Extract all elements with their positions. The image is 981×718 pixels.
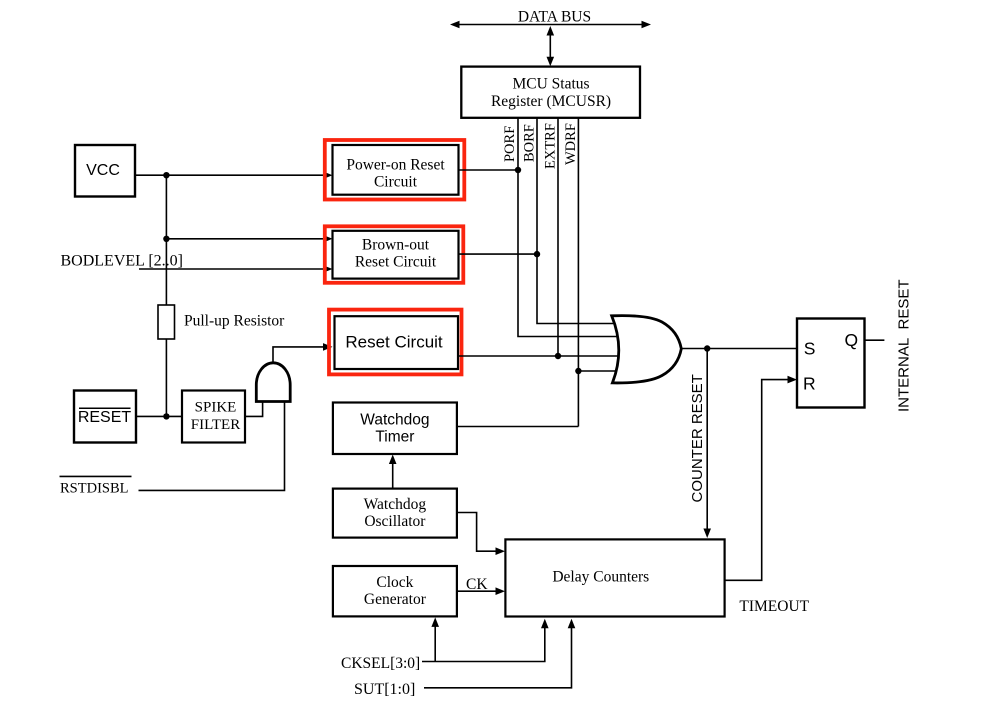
- wire BORF net: MCUSR down, right into OR gate: [537, 118, 616, 324]
- wire VCC rail down to pull-up resistor: [165, 175, 167, 305]
- wire pull-up resistor to reset line: [165, 339, 167, 416]
- svg-text:Pull-up Resistor: Pull-up Resistor: [184, 313, 285, 330]
- wire SUT to delay counters: [424, 619, 575, 688]
- svg-text:Timer: Timer: [375, 429, 414, 446]
- svg-text:INTERNAL RESET: INTERNAL RESET: [896, 279, 913, 412]
- wire CKSEL to clock generator and delay counters: [422, 617, 549, 661]
- svg-text:EXTRF: EXTRF: [543, 123, 559, 169]
- svg-text:RESET: RESET: [78, 409, 132, 426]
- wire watchdog oscillator to watchdog timer: [389, 455, 397, 489]
- latch U10 SR latch: [797, 319, 865, 408]
- wire BODLEVEL to brown-out reset circuit: [139, 265, 333, 273]
- node junction BORF / brown-out: [534, 251, 540, 257]
- svg-text:TIMEOUT: TIMEOUT: [739, 598, 809, 615]
- svg-text:SUT[1:0]: SUT[1:0]: [354, 681, 415, 698]
- svg-text:Clock: Clock: [376, 574, 413, 591]
- svg-text:CKSEL[3:0]: CKSEL[3:0]: [341, 655, 420, 672]
- block U4 Brown-out Reset Circuit (red highlight): [325, 226, 464, 282]
- svg-text:Power-on Reset: Power-on Reset: [346, 157, 445, 174]
- wire OR output to latch S input: [681, 348, 797, 350]
- wire watchdog oscillator output to delay counters: [457, 513, 505, 556]
- wire VCC branch to brown-out reset circuit: [166, 235, 332, 243]
- wire brown-out output to BORF net: [459, 253, 538, 255]
- node junction counter reset branch: [704, 345, 710, 351]
- wire spike filter to gate G1: [245, 402, 263, 416]
- node junction VCC branch: [163, 172, 169, 178]
- svg-text:SPIKE: SPIKE: [195, 400, 237, 416]
- filter U2 SPIKE FILTER box: [182, 391, 245, 443]
- node junction EXTRF / reset circuit: [555, 353, 561, 359]
- port RESET box: [74, 391, 136, 443]
- svg-text:Watchdog: Watchdog: [360, 412, 429, 429]
- svg-text:Circuit: Circuit: [374, 174, 418, 191]
- svg-text:Oscillator: Oscillator: [364, 513, 426, 530]
- node RSTDISBL label: [60, 476, 132, 496]
- supply VCC box: [75, 145, 135, 197]
- svg-text:Reset Circuit: Reset Circuit: [355, 254, 437, 271]
- wire TIMEOUT from delay counters to latch R input: [725, 376, 797, 581]
- wire RSTDISBL to gate G1: [139, 402, 285, 491]
- wire watchdog timer output to WDRF net: [457, 426, 579, 428]
- block U8 Clock Generator: [333, 566, 457, 616]
- svg-text:PORF: PORF: [502, 126, 518, 162]
- svg-text:R: R: [803, 373, 816, 393]
- svg-text:Generator: Generator: [364, 591, 427, 608]
- wire WDRF net: MCUSR down to watchdog-timer output row: [577, 118, 579, 427]
- svg-text:RSTDISBL: RSTDISBL: [60, 481, 129, 497]
- svg-text:VCC: VCC: [86, 162, 120, 179]
- wire EXTRF net: MCUSR down to reset-circuit output row: [557, 118, 559, 356]
- gate G1 (reset disable gate): [256, 363, 290, 402]
- block U3 Power-on Reset Circuit (red highlight): [325, 140, 465, 200]
- register U1 MCU Status Register (MCUSR): [461, 67, 640, 118]
- node junction WDRF / OR input: [575, 368, 581, 374]
- wire MCUSR to data bus (vertical double arrow): [547, 26, 555, 66]
- svg-text:Register (MCUSR): Register (MCUSR): [491, 93, 611, 110]
- block U5 Reset Circuit (red highlight): [329, 310, 462, 375]
- wire RESET to spike filter: [136, 415, 182, 417]
- wire Q output (internal reset): [865, 339, 885, 341]
- svg-text:Brown-out: Brown-out: [362, 237, 430, 254]
- svg-text:Watchdog: Watchdog: [364, 496, 427, 513]
- svg-text:COUNTER RESET: COUNTER RESET: [689, 374, 706, 502]
- wire VCC to power-on reset circuit: [135, 171, 333, 179]
- node junction PORF / power-on: [515, 167, 521, 173]
- svg-text:BODLEVEL [2..0]: BODLEVEL [2..0]: [61, 252, 184, 269]
- gate G2 OR (reset sources): [612, 316, 682, 383]
- wire power-on output to PORF net: [459, 169, 519, 171]
- svg-text:Q: Q: [845, 330, 859, 350]
- svg-text:FILTER: FILTER: [191, 417, 240, 433]
- svg-text:WDRF: WDRF: [563, 123, 579, 165]
- block U6 Watchdog Timer: [333, 403, 457, 455]
- wire CK clock generator to delay counters: [457, 587, 505, 595]
- data bus arrow: [450, 21, 651, 29]
- svg-text:BORF: BORF: [521, 124, 537, 162]
- wire WDRF to OR gate input: [578, 370, 618, 372]
- resistor R1 pull-up: [158, 305, 175, 339]
- svg-text:MCU Status: MCU Status: [512, 75, 589, 92]
- wire gate G1 output to reset circuit: [273, 343, 333, 362]
- svg-text:DATA BUS: DATA BUS: [518, 8, 591, 25]
- counter U9 Delay Counters: [505, 539, 724, 616]
- node junction brown-out branch: [163, 236, 169, 242]
- wire reset circuit output to EXTRF net and OR gate: [458, 355, 620, 357]
- block U7 Watchdog Oscillator: [333, 489, 457, 538]
- svg-text:S: S: [804, 339, 816, 359]
- wire COUNTER RESET down to delay counters: [703, 349, 711, 539]
- node junction pull-up / reset wire: [163, 413, 169, 419]
- svg-text:Delay Counters: Delay Counters: [552, 569, 649, 586]
- wire PORF net: MCUSR down, right into OR gate: [518, 118, 619, 337]
- svg-text:Reset Circuit: Reset Circuit: [345, 333, 443, 352]
